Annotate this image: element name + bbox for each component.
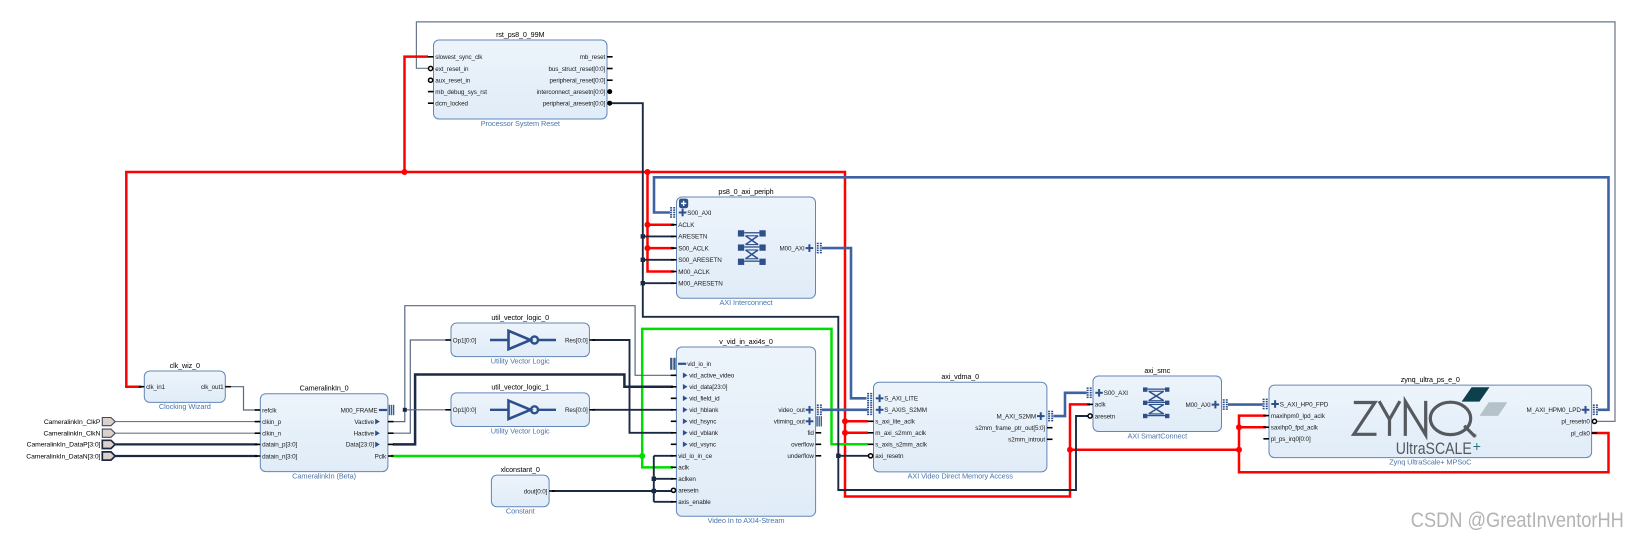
svg-text:slowest_sync_clk: slowest_sync_clk	[435, 54, 483, 61]
svg-text:axi_vdma_0: axi_vdma_0	[941, 372, 979, 381]
junction pl_clk0 dots	[402, 169, 1243, 453]
svg-text:Clocking Wizard: Clocking Wizard	[159, 402, 211, 411]
svg-text:ps8_0_axi_periph: ps8_0_axi_periph	[718, 187, 773, 196]
wire smc M00_AXI to S_AXI_HP0_FPD bus	[1228, 403, 1263, 406]
svg-text:aresetn: aresetn	[1095, 413, 1116, 420]
wire M00_AXI to S_AXI_LITE bus	[822, 248, 867, 398]
wire clk_out1 to refclk	[229, 387, 258, 410]
svg-text:Vactive: Vactive	[354, 419, 374, 426]
svg-text:aclk: aclk	[678, 465, 690, 472]
block v_vid_in_axi4s_0 Video In to AXI4-Stream	[670, 337, 822, 525]
wire CameralinkIn_ClkP to clkin_p	[115, 421, 257, 423]
svg-text:maxihpm0_lpd_aclk: maxihpm0_lpd_aclk	[1271, 413, 1326, 420]
wire M_AXI_S2MM to smc S00_AXI bus	[1054, 393, 1087, 416]
svg-text:S00_AXI: S00_AXI	[1104, 390, 1129, 397]
svg-text:axi_resetn: axi_resetn	[875, 453, 904, 460]
svg-text:Pclk: Pclk	[375, 453, 387, 460]
block zynq_ultra_ps_e_0 Zynq UltraScale+ MPSoC	[1263, 375, 1598, 467]
svg-text:s2mm_frame_ptr_out[5:0]: s2mm_frame_ptr_out[5:0]	[975, 425, 1045, 432]
wire util_vector_logic_0 Res to vid_vblank	[593, 340, 674, 433]
svg-text:util_vector_logic_1: util_vector_logic_1	[491, 383, 549, 392]
svg-text:+: +	[1473, 438, 1481, 454]
svg-text:Res[0:0]: Res[0:0]	[565, 407, 588, 414]
svg-text:rst_ps8_0_99M: rst_ps8_0_99M	[496, 30, 544, 39]
svg-text:Utility Vector Logic: Utility Vector Logic	[491, 426, 550, 435]
svg-text:Video In to AXI4-Stream: Video In to AXI4-Stream	[708, 516, 785, 525]
svg-text:M_AXI_S2MM: M_AXI_S2MM	[997, 413, 1037, 420]
svg-text:dcm_locked: dcm_locked	[435, 101, 468, 108]
junction Vactive dot	[403, 408, 407, 412]
svg-text:ARESETN: ARESETN	[678, 234, 708, 241]
svg-text:fid: fid	[807, 430, 814, 437]
svg-text:dout[0:0]: dout[0:0]	[524, 488, 548, 495]
svg-text:ext_reset_in: ext_reset_in	[435, 66, 469, 73]
wire pl_clk0 branch to axi interconnect clocks	[648, 172, 675, 272]
svg-text:mb_debug_sys_rst: mb_debug_sys_rst	[435, 89, 487, 96]
wire peripheral_aresetn net	[610, 103, 1090, 490]
svg-text:util_vector_logic_0: util_vector_logic_0	[491, 313, 549, 322]
port CameralinkIn_DataN external input	[26, 452, 115, 460]
svg-text:M00_ACLK: M00_ACLK	[678, 269, 710, 276]
wire pl_clk0 net main loop	[126, 172, 1608, 497]
svg-text:vid_hblank: vid_hblank	[689, 407, 719, 414]
svg-text:CameralinkIn (Beta): CameralinkIn (Beta)	[292, 471, 356, 480]
svg-text:peripheral_reset[0:0]: peripheral_reset[0:0]	[550, 78, 606, 85]
block xlconstant_0 Constant	[491, 465, 554, 516]
svg-text:bus_struct_reset[0:0]: bus_struct_reset[0:0]	[548, 66, 605, 73]
svg-text:M00_FRAME: M00_FRAME	[341, 407, 378, 414]
svg-text:AXI Interconnect: AXI Interconnect	[719, 298, 772, 307]
svg-text:S00_ARESETN: S00_ARESETN	[678, 257, 722, 264]
port CameralinkIn_ClkP external input	[44, 418, 115, 426]
svg-text:S_AXI_LITE: S_AXI_LITE	[884, 396, 918, 403]
svg-text:mb_reset: mb_reset	[580, 54, 606, 61]
svg-text:CameralinkIn_ClkP: CameralinkIn_ClkP	[44, 419, 101, 426]
svg-text:datain_n[3:0]: datain_n[3:0]	[262, 453, 297, 460]
svg-text:AXI Video Direct Memory Access: AXI Video Direct Memory Access	[908, 472, 1014, 481]
svg-text:pl_ps_irq0[0:0]: pl_ps_irq0[0:0]	[1271, 436, 1311, 443]
svg-text:CameralinkIn_DataP[3:0]: CameralinkIn_DataP[3:0]	[27, 442, 101, 449]
svg-text:zynq_ultra_ps_e_0: zynq_ultra_ps_e_0	[1401, 375, 1460, 384]
svg-text:vtiming_out: vtiming_out	[774, 419, 805, 426]
wire pl_clk0 branch to rst slowest_sync_clk	[405, 57, 429, 172]
wire Vactive net	[393, 306, 673, 422]
svg-text:S00_ACLK: S00_ACLK	[678, 245, 709, 252]
junction Pclk dot	[639, 453, 645, 459]
svg-text:M_AXI_HPM0_LPD: M_AXI_HPM0_LPD	[1527, 407, 1582, 414]
svg-text:ACLK: ACLK	[678, 222, 695, 229]
wire Hactive net	[393, 340, 448, 433]
svg-text:vid_data[23:0]: vid_data[23:0]	[689, 384, 728, 391]
svg-text:CameralinkIn_ClkN: CameralinkIn_ClkN	[43, 431, 100, 438]
svg-text:vid_active_video: vid_active_video	[689, 373, 735, 380]
svg-text:Op1[0:0]: Op1[0:0]	[453, 407, 477, 414]
svg-text:Zynq UltraScale+ MPSoC: Zynq UltraScale+ MPSoC	[1389, 457, 1472, 466]
wire Pclk net from CameralinkIn	[391, 329, 868, 468]
svg-text:s2mm_introut: s2mm_introut	[1008, 437, 1045, 444]
wire M_AXI_HPM0_LPD to S00_AXI bus	[654, 177, 1609, 409]
svg-text:axi_smc: axi_smc	[1144, 366, 1170, 375]
svg-text:S_AXIS_S2MM: S_AXIS_S2MM	[884, 407, 927, 414]
block rst_ps8_0_99M Processor System Reset	[428, 30, 613, 128]
junction dout dots	[652, 477, 656, 494]
svg-text:vid_field_id: vid_field_id	[689, 396, 720, 403]
wire CameralinkIn_ClkN to clkin_n	[115, 432, 257, 434]
port CameralinkIn_ClkN external input	[43, 429, 115, 437]
svg-text:Res[0:0]: Res[0:0]	[565, 337, 588, 344]
svg-text:saxihp0_fpd_aclk: saxihp0_fpd_aclk	[1271, 425, 1319, 432]
wire CameralinkIn_DataP bus	[115, 443, 257, 445]
block ps8_0_axi_periph AXI Interconnect	[670, 187, 822, 307]
svg-text:M00_ARESETN: M00_ARESETN	[678, 281, 723, 288]
svg-text:M00_AXI: M00_AXI	[779, 245, 805, 252]
block axi_smc AXI SmartConnect	[1087, 366, 1228, 441]
svg-text:aclken: aclken	[678, 476, 696, 483]
svg-text:M00_AXI: M00_AXI	[1185, 402, 1211, 409]
wire video_out to S_AXIS_S2MM bus	[822, 408, 868, 411]
svg-text:S_AXI_HP0_FPD: S_AXI_HP0_FPD	[1280, 401, 1329, 408]
svg-text:xlconstant_0: xlconstant_0	[501, 465, 540, 474]
svg-text:s_axi_lite_aclk: s_axi_lite_aclk	[875, 419, 915, 426]
svg-text:clk_in1: clk_in1	[146, 384, 165, 391]
block util_vector_logic_1 Utility Vector Logic	[445, 383, 595, 436]
block clk_wiz_0 Clocking Wizard	[139, 361, 231, 411]
junction aresetn dots	[641, 234, 841, 458]
svg-text:overflow: overflow	[791, 442, 814, 449]
svg-text:Op1[0:0]: Op1[0:0]	[453, 337, 477, 344]
svg-text:Constant: Constant	[506, 507, 535, 516]
svg-text:clkin_p: clkin_p	[262, 419, 281, 426]
svg-text:clk_wiz_0: clk_wiz_0	[170, 361, 200, 370]
block CameralinkIn_0	[255, 384, 395, 481]
svg-text:v_vid_in_axi4s_0: v_vid_in_axi4s_0	[719, 337, 773, 346]
wire util_vector_logic_1 Res to vid_hblank	[593, 409, 674, 411]
svg-text:UltraSCALE: UltraSCALE	[1396, 440, 1472, 458]
svg-text:datain_p[3:0]: datain_p[3:0]	[262, 442, 297, 449]
svg-text:s_axis_s2mm_aclk: s_axis_s2mm_aclk	[875, 442, 928, 449]
svg-text:vid_vsync: vid_vsync	[689, 442, 716, 449]
wire CameralinkIn_DataN bus	[115, 455, 257, 457]
svg-text:S00_AXI: S00_AXI	[687, 210, 712, 217]
svg-text:pl_resetn0: pl_resetn0	[1561, 419, 1590, 426]
svg-text:m_axi_s2mm_aclk: m_axi_s2mm_aclk	[875, 430, 927, 437]
svg-text:Hactive: Hactive	[354, 431, 375, 438]
svg-text:pl_clk0: pl_clk0	[1571, 430, 1590, 437]
block util_vector_logic_0 Utility Vector Logic	[445, 313, 595, 366]
svg-text:vid_io_in: vid_io_in	[687, 361, 712, 368]
port CameralinkIn_DataP external input	[27, 440, 116, 448]
wire pl_resetn0 net (Zynq pl_resetn0 to rst ext_reset_in)	[416, 22, 1615, 422]
svg-text:Processor System Reset: Processor System Reset	[481, 119, 560, 128]
block axi_vdma_0 AXI Video Direct Memory Access	[867, 372, 1053, 481]
wire Data bus CameralinkIn to vid_data	[393, 375, 673, 445]
svg-text:aux_reset_in: aux_reset_in	[435, 78, 470, 85]
wire xlconstant dout net	[552, 456, 673, 502]
svg-text:CameralinkIn_DataN[3:0]: CameralinkIn_DataN[3:0]	[26, 453, 100, 460]
watermark CSDN text	[1411, 509, 1624, 532]
svg-text:Data[23:0]: Data[23:0]	[346, 442, 374, 449]
svg-text:AXI SmartConnect: AXI SmartConnect	[1127, 431, 1187, 440]
svg-text:refclk: refclk	[262, 407, 277, 414]
svg-text:interconnect_aresetn[0:0]: interconnect_aresetn[0:0]	[537, 89, 606, 96]
svg-text:clkin_n: clkin_n	[262, 431, 281, 438]
svg-text:video_out: video_out	[778, 407, 805, 414]
svg-text:underflow: underflow	[787, 453, 814, 460]
svg-text:aclk: aclk	[1095, 402, 1107, 409]
svg-text:CSDN @GreatInventorHH: CSDN @GreatInventorHH	[1411, 509, 1624, 532]
svg-text:CameralinkIn_0: CameralinkIn_0	[300, 384, 349, 393]
svg-text:axis_enable: axis_enable	[678, 499, 711, 506]
svg-text:vid_vblank: vid_vblank	[689, 430, 719, 437]
svg-text:Utility Vector Logic: Utility Vector Logic	[491, 356, 550, 365]
svg-text:vid_io_in_ce: vid_io_in_ce	[678, 453, 712, 460]
svg-text:vid_hsync: vid_hsync	[689, 419, 716, 426]
svg-text:peripheral_aresetn[0:0]: peripheral_aresetn[0:0]	[543, 101, 606, 108]
svg-text:clk_out1: clk_out1	[201, 384, 224, 391]
svg-text:aresetn: aresetn	[678, 488, 699, 495]
